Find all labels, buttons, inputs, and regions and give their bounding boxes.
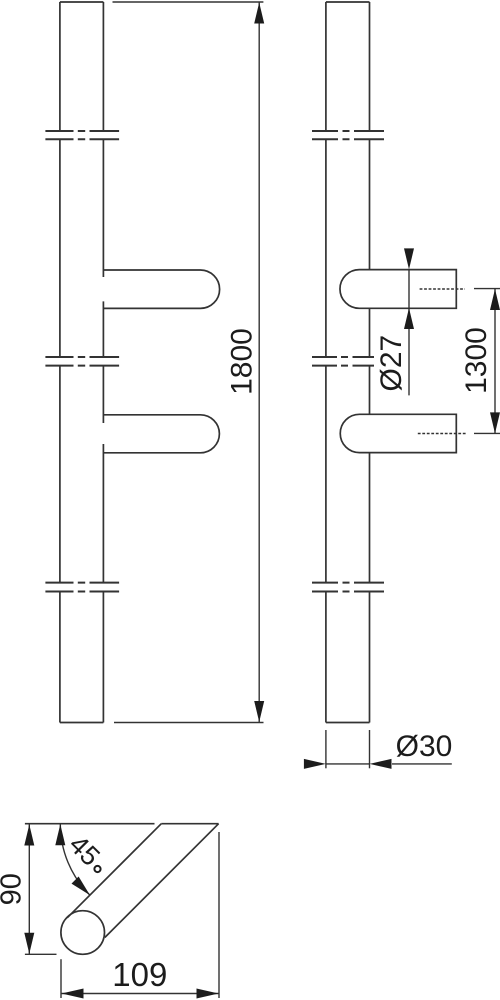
dim 45 lower arrowhead — [72, 877, 90, 896]
side view lower arm outline — [340, 414, 456, 452]
section view bar circle — [61, 911, 105, 955]
front view bar right edge — [102, 2, 104, 723]
dim d27 lower arrowhead — [404, 308, 414, 329]
dim 109 right arrowhead — [197, 989, 219, 999]
dim 109 left arrowhead — [62, 989, 84, 999]
front view bar bottom edge — [60, 722, 104, 724]
side view break line 3b — [312, 591, 384, 593]
svg-text:Ø27: Ø27 — [375, 335, 408, 392]
dim 90 dimension line — [28, 824, 30, 954]
svg-text:Ø30: Ø30 — [396, 730, 453, 763]
svg-text:90: 90 — [0, 873, 27, 905]
dim 90 top arrowhead — [24, 825, 34, 846]
side view break line 1b — [312, 138, 384, 140]
side view upper arm centerline — [420, 288, 465, 290]
section view tube lower edge — [105, 824, 219, 938]
dim 1800 top arrowhead — [254, 3, 264, 24]
side view break line 3a — [312, 582, 384, 584]
dim d30 right extension line — [369, 730, 371, 768]
dim 1300 lower extension line — [474, 432, 500, 434]
dim 45 arc — [60, 824, 90, 895]
dim 90 bottom arrowhead — [24, 933, 34, 954]
side view bar bottom edge — [326, 722, 370, 724]
dim d27 upper arrowhead — [404, 248, 414, 269]
dim 1800 dimension line — [258, 2, 260, 723]
section view top face line left — [25, 823, 155, 825]
dim 90 bottom extension line — [25, 953, 57, 955]
dim 1300 lower arrowhead — [490, 412, 500, 433]
dim 1800 top extension line — [113, 1, 264, 3]
dim 1300 dimension line — [494, 289, 496, 434]
front view break line 3b — [45, 591, 119, 593]
svg-text:1300: 1300 — [460, 327, 493, 394]
dim d30 leader line — [392, 763, 452, 765]
svg-text:1800: 1800 — [225, 328, 258, 395]
section view tube upper edge — [67, 824, 161, 918]
side view bar left edge — [325, 2, 327, 723]
side view lower arm centerline — [418, 432, 466, 434]
svg-text:109: 109 — [112, 956, 167, 993]
side view upper arm outline — [340, 270, 456, 309]
side view break line 2a — [312, 356, 374, 358]
dim 45 degree ring — [94, 866, 100, 872]
dim 109 dimension line — [61, 993, 219, 995]
dim 1300 upper extension line — [474, 288, 500, 290]
side view break line 1a — [312, 130, 384, 132]
dim 109 right extension line — [218, 832, 220, 998]
front view bar left edge — [59, 2, 61, 723]
dim 1800 bottom arrowhead — [254, 701, 264, 722]
side view break line 2b — [312, 365, 374, 367]
dim d30 right arrowhead — [370, 759, 392, 769]
dim d30 left extension line — [325, 730, 327, 768]
dim d30 left arrowhead — [304, 759, 326, 769]
dim 45 top arrowhead — [55, 824, 65, 845]
front view break line 1b — [45, 138, 119, 140]
dim d30 dimension line — [326, 763, 370, 765]
side view bar top edge — [326, 1, 370, 3]
front view lower grip arm — [103, 415, 219, 453]
dim d27 dimension line — [408, 269, 410, 395]
front view break line 2b — [45, 365, 119, 367]
front view break line 2a — [45, 356, 119, 358]
front view bar top edge — [60, 1, 104, 3]
dim 109 left extension line — [60, 959, 62, 998]
dim 1300 upper arrowhead — [490, 289, 500, 310]
front view upper grip arm — [103, 270, 219, 308]
dim 1800 bottom extension line — [114, 722, 264, 724]
side view bar right edge — [369, 2, 371, 723]
front view break line 3a — [45, 582, 119, 584]
section view top face line right — [161, 823, 218, 825]
front view break line 1a — [45, 130, 119, 132]
